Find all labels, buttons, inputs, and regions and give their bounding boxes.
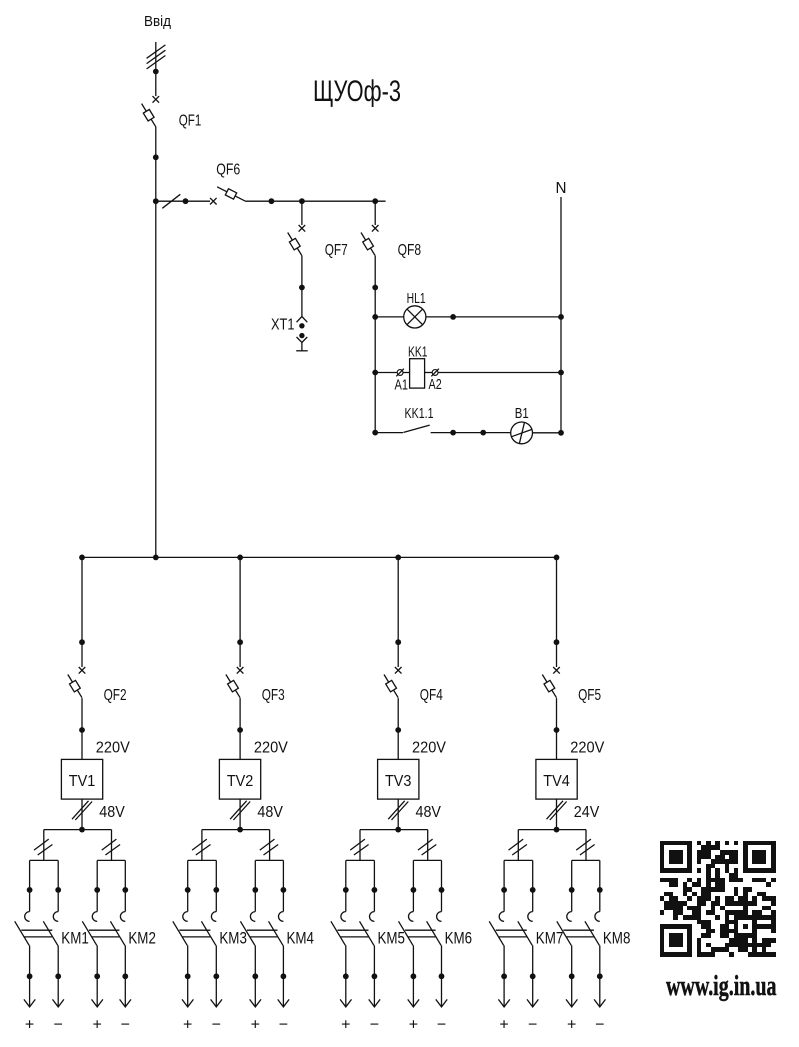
contactor fixed contact arc xyxy=(120,912,125,922)
secondary wire with double-slash xyxy=(239,799,241,830)
transformer TV3 xyxy=(378,759,419,799)
svg-text:ЩУОф-3: ЩУОф-3 xyxy=(313,75,401,108)
contactor fixed contact arc xyxy=(499,912,504,922)
contactor blade xyxy=(489,921,504,945)
svg-text:TV3: TV3 xyxy=(385,773,412,790)
output wire xyxy=(599,945,601,1006)
contactor fixed contact arc xyxy=(250,912,255,922)
transformer TV2 xyxy=(219,759,260,799)
QR code linking to ig.in.ua/ru xyxy=(660,841,776,957)
branch TV3 feed wire xyxy=(397,557,399,667)
arrow head xyxy=(527,999,538,1007)
junction dot xyxy=(530,887,536,893)
svg-text:QF3: QF3 xyxy=(262,687,285,704)
arrow head xyxy=(182,999,193,1007)
wire to transformer xyxy=(239,698,241,759)
contactor fixed contact arc xyxy=(183,912,188,922)
junction dot xyxy=(185,973,191,979)
svg-text:+: + xyxy=(183,1017,192,1034)
svg-text:−: − xyxy=(595,1017,604,1034)
junction dot xyxy=(554,727,560,733)
junction dot xyxy=(185,887,191,893)
svg-text:+: + xyxy=(341,1017,350,1034)
sub-bar left xyxy=(504,859,533,861)
svg-text:−: − xyxy=(279,1017,288,1034)
contactor fixed contact arc xyxy=(92,912,97,922)
contactor fixed contact arc xyxy=(528,912,533,922)
contactor fixed contact arc xyxy=(567,912,572,922)
svg-text:QF4: QF4 xyxy=(420,687,443,704)
wire QF8 vertical xyxy=(374,256,376,433)
junction dot xyxy=(411,887,417,893)
junction dot xyxy=(299,285,305,291)
sub-drop wire with double-slash xyxy=(43,830,45,861)
branch TV4 feed wire xyxy=(556,557,558,667)
output wire xyxy=(254,945,256,1006)
svg-text:−: − xyxy=(437,1017,446,1034)
output wire xyxy=(532,945,534,1006)
contactor fixed contact arc xyxy=(369,912,374,922)
junction dot xyxy=(281,973,287,979)
svg-text:+: + xyxy=(251,1017,260,1034)
circuit breaker QF2 xyxy=(79,667,86,674)
svg-text:QF8: QF8 xyxy=(398,242,422,259)
arrow head xyxy=(120,999,131,1007)
junction dot xyxy=(153,555,159,561)
junction dot xyxy=(597,973,603,979)
junction dot xyxy=(554,555,560,561)
contactor contact wire xyxy=(503,860,505,911)
contactor fixed contact arc xyxy=(408,912,413,922)
output wire xyxy=(282,945,284,1006)
svg-text:KK1: KK1 xyxy=(408,344,428,360)
junction dot xyxy=(55,973,61,979)
junction dot HL1 tee xyxy=(372,314,378,320)
splitter bar xyxy=(360,829,428,831)
junction dot KK1 tee xyxy=(372,370,378,376)
arrow head xyxy=(92,999,103,1007)
contactor blade xyxy=(173,921,188,945)
contactor blade xyxy=(427,921,442,945)
junction dot xyxy=(558,370,564,376)
output wire xyxy=(215,945,217,1006)
junction dot xyxy=(395,639,401,645)
circuit breaker QF5 xyxy=(553,667,560,674)
contactor blade xyxy=(82,921,97,945)
arrow head xyxy=(436,999,447,1007)
contactor blade xyxy=(585,921,600,945)
contactor contact wire xyxy=(345,860,347,911)
sub-drop wire with double-slash xyxy=(517,830,519,861)
arrow head xyxy=(340,999,351,1007)
junction dot xyxy=(122,887,128,893)
output wire xyxy=(96,945,98,1006)
contactor blade xyxy=(43,921,58,945)
transformer TV1 xyxy=(61,759,102,799)
contactor contact wire xyxy=(96,860,98,911)
junction dot xyxy=(569,887,575,893)
wire to QF6 xyxy=(156,200,210,202)
junction dot xyxy=(252,973,258,979)
svg-text:KM7: KM7 xyxy=(536,928,564,947)
svg-text:48V: 48V xyxy=(99,804,125,821)
svg-text:220V: 220V xyxy=(96,740,131,757)
contactor contact wire xyxy=(373,860,375,911)
svg-text:+: + xyxy=(567,1017,576,1034)
junction dot xyxy=(501,887,507,893)
contactor contact wire xyxy=(412,860,414,911)
mechanical linkage bars xyxy=(338,929,369,931)
junction dot xyxy=(237,727,243,733)
disconnect slash xyxy=(162,194,180,208)
arrow head xyxy=(594,999,605,1007)
junction dot xyxy=(269,198,275,204)
junction dot xyxy=(153,154,159,160)
svg-text:KM1: KM1 xyxy=(61,928,89,947)
contactor contact wire xyxy=(215,860,217,911)
wire xyxy=(431,432,511,434)
output wire xyxy=(187,945,189,1006)
svg-text:KM3: KM3 xyxy=(219,928,247,947)
svg-text:KM2: KM2 xyxy=(128,928,156,947)
svg-text:TV1: TV1 xyxy=(69,773,96,790)
svg-text:A1: A1 xyxy=(395,377,409,393)
junction dot xyxy=(213,887,219,893)
junction dot xyxy=(530,973,536,979)
wire to transformer xyxy=(397,698,399,759)
secondary wire with double-slash xyxy=(556,799,558,830)
contactor contact wire xyxy=(599,860,601,911)
circuit breaker QF4 xyxy=(395,667,402,674)
contactor blade xyxy=(518,921,533,945)
mechanical linkage bars xyxy=(21,929,52,931)
junction dot xyxy=(79,555,85,561)
contactor contact wire xyxy=(571,860,573,911)
contactor fixed contact arc xyxy=(53,912,58,922)
svg-text:TV2: TV2 xyxy=(227,773,254,790)
junction dot xyxy=(79,727,85,733)
splitter bar xyxy=(518,829,586,831)
contactor fixed contact arc xyxy=(25,912,30,922)
junction dot xyxy=(597,887,603,893)
mechanical linkage bars xyxy=(563,929,594,931)
contactor fixed contact arc xyxy=(278,912,283,922)
svg-text:QF6: QF6 xyxy=(216,162,240,179)
junction dot xyxy=(281,887,287,893)
wire B1 to N xyxy=(533,432,562,434)
svg-text:KM5: KM5 xyxy=(378,928,406,947)
wire xyxy=(301,256,303,317)
junction dot xyxy=(122,973,128,979)
contactor blade xyxy=(269,921,284,945)
svg-text:HL1: HL1 xyxy=(407,291,426,307)
sub-bar right xyxy=(572,859,600,861)
svg-text:QF5: QF5 xyxy=(578,687,601,704)
junction dot xyxy=(237,639,243,645)
junction dot xyxy=(395,827,401,833)
junction dot KK1.1 corner xyxy=(372,430,378,436)
branch TV2 feed wire xyxy=(239,557,241,667)
junction dot (tee to QF6 row) xyxy=(153,198,159,204)
contactor blade xyxy=(399,921,414,945)
arrow head xyxy=(369,999,380,1007)
contactor contact wire xyxy=(29,860,31,911)
junction dot xyxy=(343,973,349,979)
sub-drop wire with double-slash xyxy=(585,830,587,861)
svg-text:KM8: KM8 xyxy=(603,928,631,947)
arrow head xyxy=(498,999,509,1007)
contactor contact wire xyxy=(187,860,189,911)
output wire xyxy=(57,945,59,1006)
splitter bar xyxy=(202,829,270,831)
arrow head xyxy=(250,999,261,1007)
contactor fixed contact arc xyxy=(437,912,442,922)
contactor contact wire xyxy=(532,860,534,911)
arrow head xyxy=(408,999,419,1007)
junction dot xyxy=(558,430,564,436)
svg-text:48V: 48V xyxy=(416,804,442,821)
junction dot xyxy=(569,973,575,979)
junction dot xyxy=(27,887,33,893)
contactor blade xyxy=(110,921,125,945)
wire QF7 drop xyxy=(301,201,303,225)
branch TV1 feed wire xyxy=(81,557,83,667)
svg-text:+: + xyxy=(409,1017,418,1034)
junction dot xyxy=(237,555,243,561)
contactor blade xyxy=(331,921,346,945)
junction dot xyxy=(395,555,401,561)
wire to transformer xyxy=(81,698,83,759)
junction dot xyxy=(372,887,378,893)
svg-text:−: − xyxy=(370,1017,379,1034)
junction dot xyxy=(501,973,507,979)
output wire xyxy=(571,945,573,1006)
svg-text:220V: 220V xyxy=(412,740,447,757)
svg-text:48V: 48V xyxy=(257,804,283,821)
sub-bar left xyxy=(188,859,217,861)
output wire xyxy=(412,945,414,1006)
contactor fixed contact arc xyxy=(341,912,346,922)
junction dot xyxy=(55,887,61,893)
junction dot xyxy=(213,973,219,979)
junction dot xyxy=(27,973,33,979)
svg-text:QF7: QF7 xyxy=(325,242,348,259)
mechanical linkage bars xyxy=(247,929,278,931)
wire main feeder vertical xyxy=(155,127,157,558)
svg-text:QF2: QF2 xyxy=(104,687,127,704)
wire to transformer xyxy=(556,698,558,759)
svg-text:KM6: KM6 xyxy=(445,928,473,947)
sub-drop wire with double-slash xyxy=(359,830,361,861)
contactor blade xyxy=(201,921,216,945)
junction dot xyxy=(450,314,456,320)
arrow head xyxy=(566,999,577,1007)
svg-text:−: − xyxy=(212,1017,221,1034)
mechanical linkage bars xyxy=(496,929,527,931)
circuit breaker QF8 xyxy=(372,225,379,232)
wire KK1 to N xyxy=(438,372,561,374)
contactor blade xyxy=(557,921,572,945)
mechanical linkage bars xyxy=(405,929,436,931)
sub-drop wire with double-slash xyxy=(201,830,203,861)
junction dot xyxy=(153,69,159,75)
junction dot xyxy=(94,887,100,893)
mechanical linkage bars xyxy=(179,929,210,931)
svg-text:A2: A2 xyxy=(429,377,442,393)
distribution bus xyxy=(82,556,557,558)
sub-drop wire with double-slash xyxy=(427,830,429,861)
wire N vertical xyxy=(560,197,562,433)
secondary wire with double-slash xyxy=(397,799,399,830)
contactor contact wire xyxy=(124,860,126,911)
transformer TV4 xyxy=(536,759,577,799)
sub-bar right xyxy=(413,859,441,861)
svg-text:XT1: XT1 xyxy=(271,316,295,333)
output wire xyxy=(124,945,126,1006)
wire QF8 drop xyxy=(374,201,376,225)
junction dot QF7 tap xyxy=(299,198,305,204)
splitter bar xyxy=(44,829,112,831)
secondary wire with double-slash xyxy=(81,799,83,830)
mechanical linkage bars xyxy=(89,929,120,931)
junction dot xyxy=(554,639,560,645)
wire QF6 to QF8 stub xyxy=(245,200,386,202)
junction dot xyxy=(94,973,100,979)
contactor contact wire xyxy=(57,860,59,911)
junction dot QF8 tap xyxy=(372,198,378,204)
svg-text:www.ig.in.ua: www.ig.in.ua xyxy=(666,971,777,1002)
svg-text:N: N xyxy=(556,180,567,197)
junction dot xyxy=(450,430,456,436)
contactor fixed contact arc xyxy=(211,912,216,922)
contactor fixed contact arc xyxy=(595,912,600,922)
sub-bar right xyxy=(97,859,125,861)
wire xyxy=(155,72,157,97)
circuit breaker QF3 xyxy=(237,667,244,674)
svg-text:QF1: QF1 xyxy=(179,112,202,129)
wire HL1 to N xyxy=(426,316,561,318)
arrow head xyxy=(53,999,64,1007)
contactor contact wire xyxy=(441,860,443,911)
contactor blade xyxy=(15,921,30,945)
junction dot xyxy=(411,973,417,979)
svg-text:+: + xyxy=(93,1017,102,1034)
sub-bar left xyxy=(346,859,375,861)
junction dot xyxy=(558,314,564,320)
junction dot xyxy=(183,198,189,204)
sub-drop wire with double-slash xyxy=(269,830,271,861)
svg-text:−: − xyxy=(528,1017,537,1034)
junction dot xyxy=(480,430,486,436)
junction dot xyxy=(554,827,560,833)
svg-text:+: + xyxy=(25,1017,34,1034)
svg-text:−: − xyxy=(54,1017,63,1034)
output wire xyxy=(373,945,375,1006)
connector XT1 xyxy=(297,317,308,323)
svg-text:B1: B1 xyxy=(515,406,529,422)
junction dot xyxy=(237,827,243,833)
feeder wire xyxy=(155,42,157,72)
svg-text:KM4: KM4 xyxy=(287,928,315,947)
svg-text:TV4: TV4 xyxy=(543,773,570,790)
circuit breaker QF1 xyxy=(153,96,160,103)
junction dot xyxy=(79,639,85,645)
junction dot xyxy=(395,727,401,733)
sub-bar left xyxy=(30,859,59,861)
svg-text:24V: 24V xyxy=(574,804,600,821)
circuit breaker QF7 xyxy=(299,225,306,232)
sub-drop wire with double-slash xyxy=(111,830,113,861)
output wire xyxy=(503,945,505,1006)
junction dot xyxy=(79,827,85,833)
output wire xyxy=(29,945,31,1006)
arrow head xyxy=(211,999,222,1007)
contactor contact wire xyxy=(254,860,256,911)
sub-bar right xyxy=(255,859,283,861)
arrow head xyxy=(24,999,35,1007)
svg-text:KK1.1: KK1.1 xyxy=(405,406,434,422)
contactor blade xyxy=(360,921,375,945)
junction dot xyxy=(439,973,445,979)
3-phase hatch marks xyxy=(147,45,166,58)
junction dot xyxy=(343,887,349,893)
junction dot xyxy=(372,285,378,291)
junction dot xyxy=(372,973,378,979)
arrow head xyxy=(278,999,289,1007)
output wire xyxy=(441,945,443,1006)
contactor blade xyxy=(240,921,255,945)
svg-text:Ввід: Ввід xyxy=(144,13,171,30)
contactor contact wire xyxy=(282,860,284,911)
output wire xyxy=(345,945,347,1006)
junction dot xyxy=(252,887,258,893)
svg-text:220V: 220V xyxy=(254,740,289,757)
svg-text:+: + xyxy=(499,1017,508,1034)
circuit breaker QF6 (horizontal) xyxy=(210,198,217,205)
svg-text:220V: 220V xyxy=(570,740,605,757)
svg-text:−: − xyxy=(121,1017,130,1034)
junction dot xyxy=(439,887,445,893)
